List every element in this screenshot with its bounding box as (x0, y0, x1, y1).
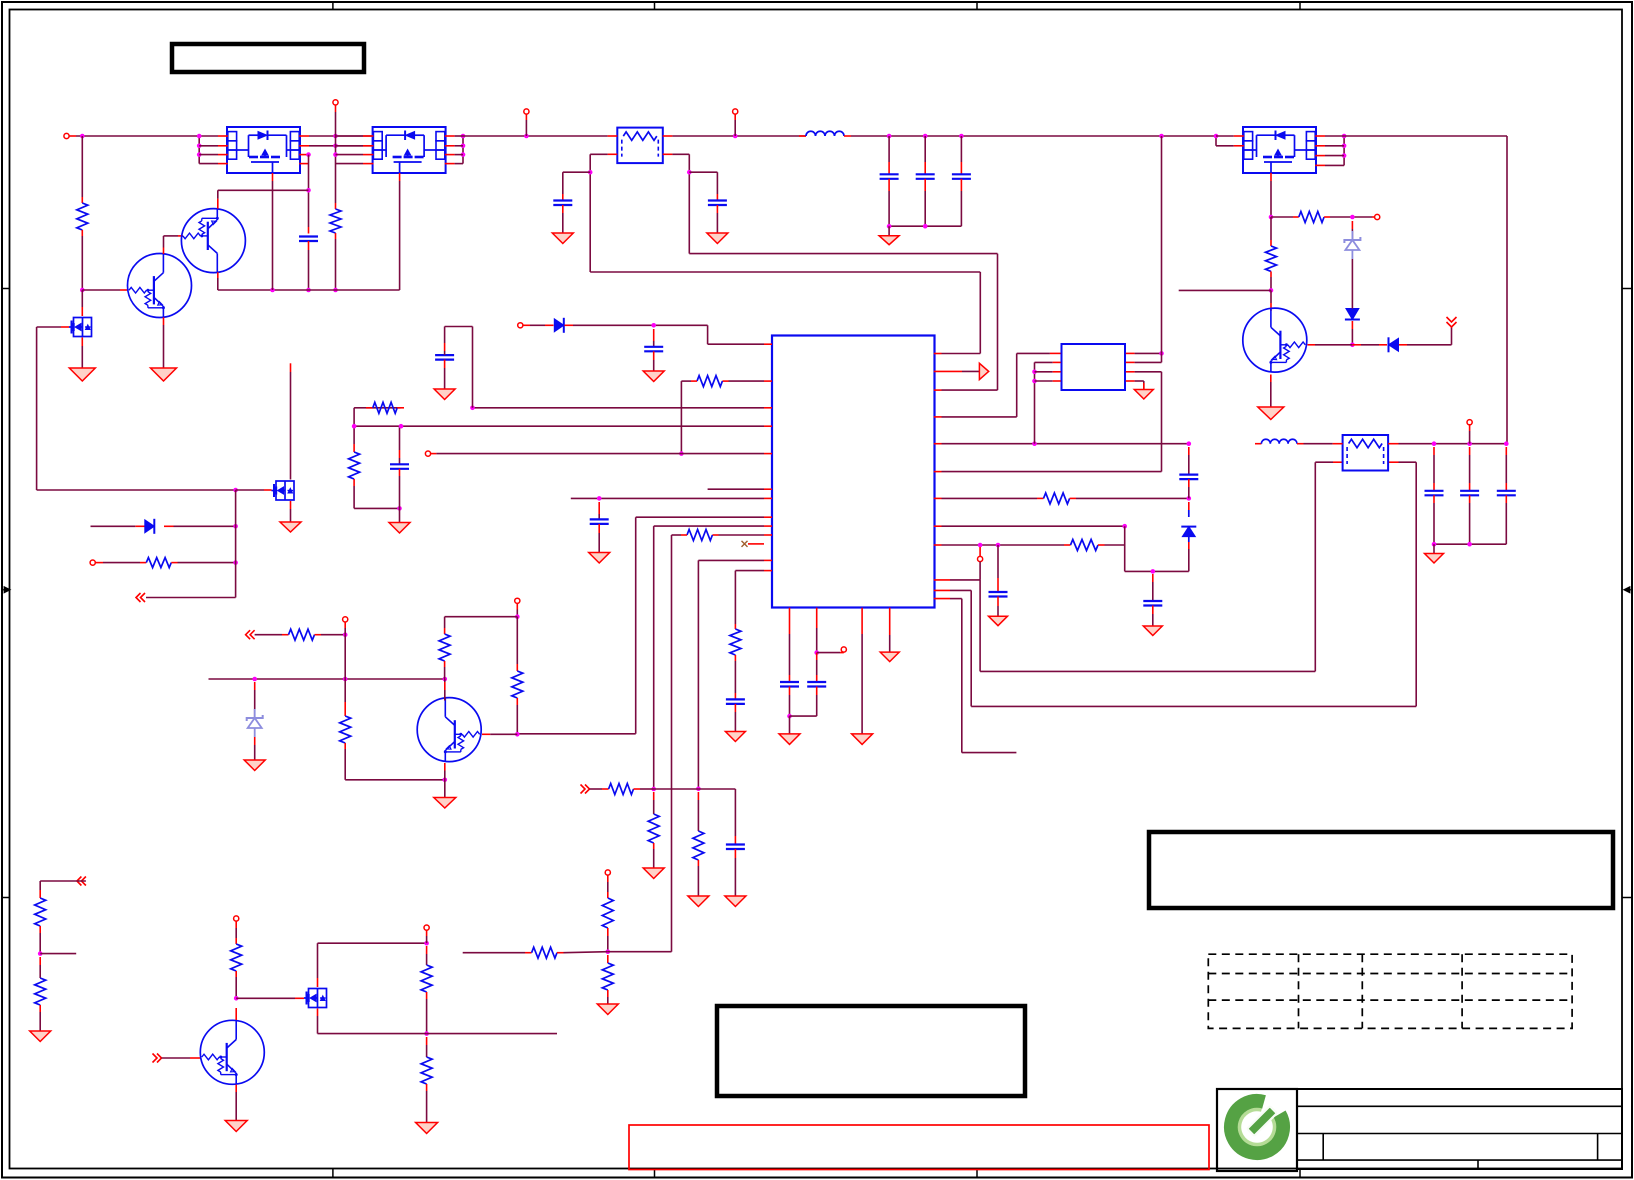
capacitor C6 (952, 136, 971, 226)
wire row579 (934, 562, 980, 672)
diode D3 (1379, 337, 1407, 352)
capacitor C5 (916, 136, 935, 226)
ground G21 (725, 732, 745, 742)
wire row517 (517, 517, 772, 734)
resistor R21 (1271, 212, 1330, 223)
capacitor C1 (x308) (299, 227, 318, 250)
connector chevron down (1447, 317, 1457, 327)
wire y671 out sense (980, 462, 1343, 671)
resistor R5 (103, 558, 238, 568)
wire U3 gate down (272, 181, 274, 290)
stub RS2 (1333, 443, 1399, 445)
wire row560 (696, 560, 772, 791)
resistor R24 (x426) (421, 946, 432, 1036)
pin P6 (1467, 420, 1472, 444)
transistor Q2 (181, 208, 245, 273)
connector chevron right 2 (153, 1054, 162, 1063)
capacitor C14 (pinB) (790, 608, 827, 716)
resistor R8 (x735) (730, 624, 741, 693)
ground G13 (1134, 390, 1153, 400)
pin P2 (524, 109, 529, 136)
wire Q3 collector (1270, 290, 1272, 311)
connector chevron right 1 (581, 785, 590, 794)
pin P15 (424, 925, 429, 943)
title block table (1217, 1089, 1622, 1171)
pin P5 (1375, 214, 1380, 219)
wire row526 (651, 526, 772, 791)
wire U2 right pin2 (1126, 353, 1162, 362)
resistor R17 (x698) (693, 792, 704, 896)
wire y571 (1125, 569, 1189, 574)
ground G23 (725, 896, 746, 907)
wire row426 (352, 424, 772, 429)
wire rail U5 to out (1344, 136, 1507, 444)
dual MOSFET U4 (N-ch) (373, 127, 446, 173)
wire row353 (CSP) (934, 272, 981, 354)
dual MOSFET U3 (P-ch, input high-side) (227, 127, 300, 173)
transistor Q5 (200, 1020, 264, 1085)
wire D1 row to IC (708, 325, 772, 344)
pin P11 (90, 560, 103, 565)
wire M3 source (318, 1009, 427, 1034)
wire U5 left bus (1214, 134, 1234, 146)
ground G6 (280, 522, 301, 532)
MOSFET M3 (304, 989, 327, 1008)
zener Z1 (1344, 221, 1360, 300)
wire U3 row4 left (199, 163, 218, 165)
wire rail L1-caps (851, 134, 1216, 139)
wire Q2 emitter up (218, 190, 309, 208)
ground G22 (688, 896, 709, 907)
ground G9 (589, 553, 610, 564)
wire U2 right pin3 (1126, 372, 1162, 472)
frame right mid arrow (1624, 587, 1633, 594)
wire cap line x308 (306, 155, 311, 293)
diode D2 (1345, 300, 1360, 347)
pin P8 (978, 547, 983, 562)
wire M1gate to bus (37, 488, 238, 493)
ground G19 (852, 734, 873, 745)
wire row590 (934, 462, 1416, 706)
stub RS1 (608, 136, 673, 154)
ground G25 (597, 1004, 618, 1015)
stub U4 pins (363, 136, 455, 181)
wire cap bank bus (887, 224, 962, 236)
wire M1 gate (37, 327, 69, 490)
resistor R16 (x653) (648, 792, 659, 868)
wire M3 drain (318, 941, 429, 987)
capacitor C12 (x998) (989, 545, 1008, 616)
wire U2 right pin1 (1126, 351, 1164, 356)
sense resistor RS2 (1343, 435, 1389, 471)
stub U5 pins (1234, 136, 1325, 181)
pin P13 (515, 598, 520, 619)
MOSFET M1 (69, 318, 92, 337)
resistor R22 (x1271) (1266, 217, 1277, 293)
pin P1 VIN (64, 133, 76, 138)
wire Q1 base (82, 289, 128, 291)
wire row598 (nc) (934, 599, 1017, 753)
wire U3 row3 to cap (306, 152, 311, 157)
ground G10 (643, 371, 664, 382)
capacitor C13 (pinA) (780, 608, 799, 734)
wire RS1 kelvin right (672, 154, 997, 253)
wire bus x236 (146, 490, 236, 598)
ground G11 (244, 760, 265, 771)
wire row453 (436, 453, 772, 455)
pin P12 (343, 617, 348, 635)
ground G24 (643, 868, 664, 879)
resistor R20 (x607 low) (602, 955, 613, 1004)
wire Q4 collector (444, 679, 446, 701)
wire Q4 base (482, 733, 517, 735)
wire U5 right bus (1325, 134, 1346, 166)
label box top-left (172, 44, 364, 72)
wire y951 (463, 947, 672, 958)
wire U4 left rows (336, 136, 364, 164)
transistor Q1 (128, 253, 192, 318)
wire row570 (735, 571, 772, 624)
resistor R6 (row381) (679, 376, 772, 456)
ground G18 (779, 734, 800, 745)
wire y679 (209, 635, 448, 682)
resistor R9 (row498) (934, 493, 1191, 504)
wire U3 row4 corner (308, 163, 311, 165)
resistor R1 (x82) (77, 136, 88, 292)
wire M1 drain (81, 290, 83, 316)
wire Q5 collector (235, 1008, 237, 1020)
wire D3 to chevron (1407, 327, 1452, 345)
wire R21-P5 (1330, 215, 1375, 220)
ground G1 (69, 368, 95, 381)
wire y616 (445, 616, 518, 618)
wire U2 left pins bus (1032, 362, 1061, 443)
capacitor C10 (x735) (726, 693, 745, 732)
inductor L2 (1255, 439, 1333, 443)
pin P4 (x335) (333, 100, 338, 112)
wire U3 row3 left (199, 154, 218, 156)
wire Q3 base row (1308, 344, 1380, 346)
stub U3 pins (218, 136, 309, 181)
ground G8 (434, 389, 455, 400)
revision table (dashed) (1208, 954, 1572, 1028)
wire row526 right (934, 524, 1127, 572)
ground G5 (879, 236, 899, 245)
transformer driver U2 (1062, 344, 1126, 390)
capacitor C4 (880, 136, 899, 226)
resistor R11 (255, 629, 348, 640)
capacitor C15 (1425, 447, 1444, 544)
ground G2 (151, 368, 177, 381)
resistor R18 (x607) (602, 882, 613, 954)
pin P9 (425, 451, 436, 456)
resistor R15 (590, 784, 655, 795)
capacitor C17 (1497, 447, 1516, 544)
capacitor C19 (x735) (726, 836, 745, 896)
wire kelvin right cap branch (689, 172, 717, 194)
resistor R25 (x426 low) (421, 1037, 432, 1123)
capacitor C9 (x599) (590, 502, 609, 553)
IC U1 (772, 336, 935, 608)
resistor R23 (x236) (231, 928, 242, 1001)
wire M1 source (81, 338, 83, 369)
connector chevron left 3 (77, 877, 86, 886)
capacitor C2 (553, 194, 572, 233)
ground G26 (416, 1123, 438, 1134)
pin P3 (733, 109, 738, 136)
ground G20 (880, 652, 899, 662)
capacitor C18 (x1152) (1143, 574, 1162, 626)
resistor R7 (row535) (672, 530, 773, 952)
wire Q5 emitter (235, 1085, 237, 1121)
wire row471 (934, 471, 1162, 473)
wire Q3 emitter (1270, 375, 1272, 408)
resistor R13 (x444) (439, 617, 450, 679)
wire row498 (571, 496, 772, 501)
zener Z2 (247, 682, 263, 760)
wire out rail (1399, 441, 1509, 446)
capacitor C16 (1460, 447, 1479, 544)
ground G3 (552, 233, 573, 244)
resistor R4 (row408) (354, 402, 772, 426)
label box bottom-center (717, 1006, 1025, 1096)
wire rail RS1-L1 (672, 134, 806, 139)
wire x40 stub (40, 953, 76, 955)
pin P14 (234, 916, 239, 928)
MOSFET M2 (272, 481, 295, 500)
resistor R26 (x40) (35, 890, 46, 956)
diode D1 (530, 318, 708, 333)
wire RS1 kelvin left (588, 154, 980, 272)
pin P7 (817, 647, 847, 653)
sense resistor RS1 (617, 128, 663, 164)
capacitor C11 (x1188) (1179, 447, 1198, 498)
wire stub left of Q3 (1179, 289, 1271, 291)
wire outcap bus (1432, 542, 1507, 554)
resistor R10 (row545) (934, 540, 1125, 551)
wire Q2 collector down (218, 272, 400, 292)
wire U4 right bus (455, 134, 466, 164)
resistor R14 (x517) (512, 617, 523, 737)
wire Q1 collector up (164, 236, 184, 254)
wire M3 gate (236, 997, 304, 999)
wire x335 bus (333, 112, 338, 292)
ground G17 (1425, 554, 1444, 564)
capacitor C3 (708, 194, 727, 233)
pin P16 (605, 870, 610, 882)
diode D5 (1181, 502, 1196, 571)
wire kelvin left cap branch (563, 172, 590, 194)
wire U3-U4 row2 (309, 144, 373, 149)
capacitor C8 (x653) (644, 329, 663, 371)
connector chevron left 1 (136, 593, 145, 602)
wire bus-M2 gate (236, 489, 272, 491)
wire Q5 base (162, 1057, 201, 1059)
wire y1033 right (427, 1033, 557, 1035)
resistor R4b (x354) (349, 426, 402, 511)
wire U3 row2 left (199, 145, 218, 147)
transistor Q4 (417, 697, 481, 762)
ground G4 (707, 233, 728, 244)
logo (green) (1221, 1091, 1292, 1162)
pin P10 (518, 323, 530, 328)
nc row543 (742, 541, 765, 547)
wire M2 drain up (290, 363, 292, 479)
wire left cluster top (40, 881, 86, 890)
ground G14 (1258, 407, 1284, 420)
capacitor C7 (x399) (390, 426, 409, 508)
resistor R12 (x345) (340, 679, 447, 782)
wire U2 vcc drop (1161, 136, 1163, 353)
ground G28 (30, 1031, 51, 1042)
diode D4 (91, 519, 238, 534)
ground G16 (1143, 626, 1162, 636)
wire rail U4-RS1 (463, 134, 608, 139)
arrow connector row371 (934, 363, 989, 379)
wire row489 (nc) (708, 488, 772, 490)
ground G27 (225, 1121, 247, 1132)
wire top rail left (76, 134, 218, 139)
wire U4 gate down (399, 181, 401, 290)
wire row443 bus (934, 441, 1191, 446)
ground G15 (989, 616, 1008, 626)
wire Q4 emitter (444, 763, 446, 798)
wire pinD gnd (889, 608, 891, 652)
wire Q1 emitter (163, 317, 165, 368)
red outline box bottom (629, 1125, 1209, 1170)
dual MOSFET U5 (output) (1243, 127, 1316, 173)
resistor R27 (x40 low) (35, 957, 46, 1031)
wire pinC gnd (861, 608, 863, 734)
inductor L1 (799, 131, 851, 136)
resistor R3 (x335) (330, 203, 341, 239)
ground G12 (434, 798, 456, 809)
ground G7 (389, 508, 410, 533)
connector chevron left 2 (246, 630, 255, 639)
wire y789 (654, 789, 735, 836)
label box right (1149, 832, 1613, 908)
transistor Q3 (1243, 308, 1307, 373)
frame left mid arrow (2, 587, 11, 594)
wire U5 gate (1269, 181, 1274, 219)
wire row417 (934, 353, 1061, 417)
wire U2 right pin4 (1126, 381, 1144, 390)
wire rail U3-U4 (309, 134, 373, 139)
capacitor C6 (x444 bridge) (435, 327, 472, 408)
wire row390 (CSN) (934, 254, 998, 391)
wire M2 source (290, 501, 292, 522)
junction bus left of U3 (197, 134, 202, 164)
